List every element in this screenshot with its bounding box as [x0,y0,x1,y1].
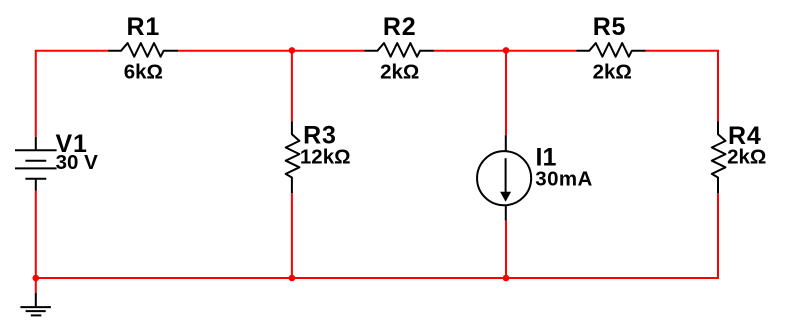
wire: top-right corner from R5 down to R4 [646,51,718,121]
wire: R3 bottom to bottom rail [291,193,293,278]
svg-text:2kΩ: 2kΩ [727,146,766,169]
svg-text:2kΩ: 2kΩ [380,61,419,84]
battery V1 plate 1 (long) [15,149,57,151]
junction node: bottom rail / ground [33,275,40,282]
junction node: bottom rail / I1 branch [503,275,510,282]
junction node: top wire / I1 branch [503,47,510,54]
battery V1 top pin stub [35,137,37,150]
wire: left vertical from battery top up and across to R1 [36,51,108,137]
current source I1 bottom pin stub [505,205,507,220]
wire: top run between R1 and R2 [178,50,364,52]
wire: bottom rail [35,277,719,279]
resistor R5 body [576,43,645,57]
svg-text:R5: R5 [593,13,627,41]
resistor R1 body [108,43,178,57]
current source I1 circle [477,151,531,205]
ground symbol stub [35,293,37,306]
svg-text:30mA: 30mA [535,167,592,190]
battery V1 plate 4 (short) [25,178,46,180]
current source I1 arrow shaft [505,158,507,192]
svg-text:R1: R1 [127,13,161,41]
resistor R3 body (vertical) [286,121,300,193]
wire: I1 bottom to bottom rail [505,221,507,278]
wire: battery bottom down to bottom rail [35,191,37,278]
wire: branch from top node down to R3 [291,51,293,121]
resistor R4 body (vertical) [712,121,726,193]
current source I1 top pin stub [505,135,507,151]
svg-text:6kΩ: 6kΩ [124,61,163,84]
ground bar 1 (long) [20,306,51,308]
battery V1 plate 2 (short) [25,160,46,162]
current source I1 arrowhead (pointing down) [500,192,511,202]
resistor R2 body [365,43,434,57]
wire: R4 bottom down to bottom-right corner [717,193,719,279]
svg-text:2kΩ: 2kΩ [593,61,632,84]
svg-text:R2: R2 [383,13,417,41]
junction node: top wire / R3 branch [289,47,296,54]
battery V1 bottom pin stub [35,180,37,191]
battery V1 plate 3 (long) [15,167,57,169]
svg-text:30 V: 30 V [56,151,98,174]
wire: top run between R2 and R5 [434,50,576,52]
junction node: bottom rail / R3 branch [289,275,296,282]
wire: ground stub below bottom rail [35,278,37,293]
ground bar 2 (middle) [26,310,46,312]
ground bar 3 (short) [31,314,42,316]
svg-text:12kΩ: 12kΩ [300,145,351,168]
wire: branch from top node down to I1 [505,51,507,135]
